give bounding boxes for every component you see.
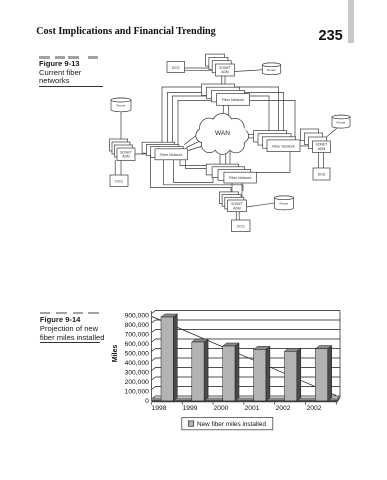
fiber network stack left	[142, 142, 187, 160]
header title	[36, 26, 215, 37]
gridline 600000	[152, 339, 341, 342]
wire left FN to cloud 1	[185, 134, 199, 145]
svg-text:2002: 2002	[307, 405, 322, 412]
figure 9-13 caption dashes	[39, 56, 49, 59]
wire router3 to SONET3	[327, 128, 337, 137]
svg-text:400,000: 400,000	[125, 360, 149, 367]
wire top FN to cloud 2	[228, 105, 230, 115]
wire router2 to SONET2	[120, 112, 122, 139]
legend box	[182, 417, 273, 429]
svg-text:New fiber miles installed: New fiber miles installed	[197, 421, 266, 428]
bar 2002	[285, 348, 301, 401]
gridline 700000	[152, 330, 341, 333]
wire left FN to cloud 3	[189, 144, 211, 151]
wire DCS1 to SONET1 line b	[185, 69, 216, 71]
DCS box top	[167, 62, 185, 73]
wire SONET1 to router1	[235, 70, 263, 72]
svg-text:0: 0	[145, 398, 149, 405]
gridline 900000	[152, 311, 341, 314]
svg-text:200,000: 200,000	[125, 379, 149, 386]
fiber network stack top	[202, 84, 250, 105]
wire cloud to right FN 1	[248, 133, 255, 135]
wire bus right vertical 3	[268, 96, 270, 131]
wire SONET4 to DCS4	[236, 212, 239, 220]
gridline 100000	[152, 387, 341, 390]
chart floor	[152, 395, 341, 401]
wire right FN to SONET3	[300, 145, 312, 147]
svg-text:2002: 2002	[276, 405, 291, 412]
bar 2000	[223, 343, 239, 401]
wire left FN to cloud 2	[187, 139, 205, 148]
router cylinder right	[332, 115, 350, 128]
wire cloud to bottom FN 3	[229, 152, 231, 167]
wire left wrap to bottom SONET	[151, 153, 232, 194]
wire SONET1 to top FN 2	[224, 76, 226, 87]
x axis tick marks	[152, 402, 337, 404]
wire bus top horizontal 4	[178, 100, 295, 102]
WAN cloud	[196, 114, 248, 154]
gridline 500000	[152, 349, 341, 352]
wire right FN down to bottom FN	[256, 152, 290, 172]
DCS box right	[313, 168, 330, 180]
bar 1998	[161, 314, 177, 401]
svg-text:300,000: 300,000	[125, 370, 149, 377]
wire bus left vertical 4	[177, 101, 179, 149]
right wall line	[339, 311, 341, 397]
wire SONET2 to DCS2 a	[114, 160, 116, 175]
wire SONET3 to DCS3 b	[323, 153, 325, 169]
wire bus right vertical 4	[294, 101, 296, 140]
wire DCS1 to SONET1 line a	[185, 67, 216, 69]
gridline 400000	[152, 358, 341, 361]
wire bus left vertical 1	[161, 87, 163, 142]
wire cloud to right FN 2	[247, 137, 259, 139]
svg-text:900,000: 900,000	[125, 313, 149, 320]
wire bus top horizontal 1	[162, 86, 279, 88]
wire left FN to bottom FN L2	[186, 160, 213, 169]
figure 9-13 caption	[39, 60, 81, 86]
fiber network stack right	[254, 131, 301, 152]
gridline 0	[152, 396, 341, 399]
wire bus left vertical 3	[172, 96, 174, 147]
wire bus left vertical 2	[167, 93, 169, 145]
wire SONET2 to DCS2 b	[120, 160, 122, 175]
wire bus right vertical 1	[278, 87, 280, 134]
wire bus top horizontal 2	[168, 92, 284, 94]
wire bus top horizontal 3	[173, 95, 270, 97]
y axis line	[151, 311, 153, 401]
wire left FN to bottom FN L3	[174, 160, 214, 183]
SONET ADM stack top U1	[206, 54, 235, 76]
wire cloud to bottom FN 1	[219, 150, 221, 164]
bar 2001	[254, 346, 270, 401]
wire cloud to bottom FN 2	[225, 153, 227, 165]
SONET ADM stack right U3	[301, 129, 331, 153]
header gray bar	[348, 0, 355, 43]
svg-text:2000: 2000	[214, 405, 229, 412]
wire SONET2 to left FN	[135, 153, 152, 155]
wire SONET3 to DCS3 a	[318, 153, 320, 169]
gridline 800000	[152, 320, 341, 323]
svg-text:Miles: Miles	[112, 345, 119, 363]
figure 9-13 caption underline	[39, 86, 103, 87]
svg-text:1999: 1999	[183, 405, 198, 412]
wire top FN to cloud 1	[222, 105, 224, 114]
figure 9-14 caption dashes	[40, 312, 51, 315]
router cylinder left	[111, 98, 131, 112]
wire left FN to bottom SONET L4	[164, 160, 244, 191]
gridline 300000	[152, 368, 341, 371]
svg-text:1998: 1998	[152, 405, 167, 412]
svg-text:600,000: 600,000	[125, 341, 149, 348]
wire SONET1 to top FN 1	[221, 76, 223, 84]
bar 2002b	[315, 346, 331, 401]
svg-text:800,000: 800,000	[125, 322, 149, 329]
SONET ADM stack bottom U4	[219, 192, 246, 212]
wire bottom FN to SONET4 a	[231, 183, 233, 192]
router cylinder bottom	[275, 196, 294, 210]
svg-text:2001: 2001	[245, 405, 260, 412]
svg-text:700,000: 700,000	[125, 332, 149, 339]
figure 9-14 caption underline	[40, 342, 100, 343]
fiber network stack bottom	[206, 164, 256, 183]
SONET ADM stack left U2	[110, 139, 136, 161]
wire SONET4 to router4	[247, 203, 275, 207]
trend line	[152, 317, 336, 396]
figure 9-14 caption	[40, 316, 105, 342]
page number 235	[319, 28, 343, 44]
DCS box bottom	[232, 220, 251, 232]
DCS box left	[110, 175, 128, 187]
router cylinder top	[262, 63, 280, 75]
bar 1999	[192, 339, 208, 401]
svg-text:100,000: 100,000	[125, 389, 149, 396]
wire bus right vertical 2	[283, 93, 285, 137]
wire left FN to bottom FN L1	[180, 160, 207, 166]
wire bottom FN to SONET4 b	[241, 183, 243, 200]
svg-text:500,000: 500,000	[125, 351, 149, 358]
gridline 200000	[152, 377, 341, 380]
